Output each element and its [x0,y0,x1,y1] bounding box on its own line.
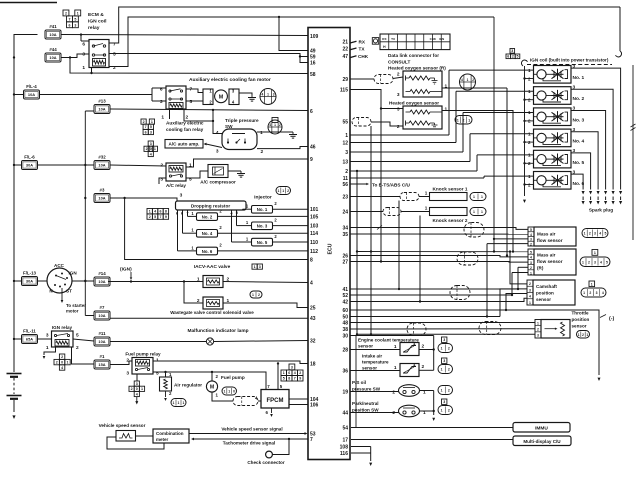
module multi-display C/U [513,436,571,446]
svg-text:Intake air: Intake air [362,354,382,359]
svg-text:#32: #32 [98,155,106,160]
svg-text:115: 115 [340,87,348,93]
wire VSS to combination meter [136,435,154,437]
coil supply rail [524,66,526,196]
svg-text:1: 1 [154,147,156,151]
svg-text:114: 114 [310,231,318,237]
connector coolant [442,337,447,342]
fuse #3 10A [94,194,110,203]
ground fan motor [239,93,252,95]
connector capsule rows 34 35 [464,223,484,238]
svg-text:1: 1 [582,260,584,264]
svg-text:1: 1 [481,210,483,214]
connector round fan [260,89,276,105]
wire relay pin5 to ECU pin 59 [109,54,308,57]
meter combination meter [153,429,189,443]
wire F/L-11 to IGN relay pin3 [38,338,52,340]
wire camshaft cell4 [506,294,527,311]
connector grid injector harness [147,209,152,214]
wire coil No.1 pin2 to rail [525,78,534,80]
svg-text:1: 1 [425,191,428,196]
sensor mass air flow sensor (R) [528,249,534,275]
svg-text:10A: 10A [98,339,105,344]
svg-text:4: 4 [310,280,313,286]
svg-text:F/L-4: F/L-4 [26,84,37,89]
svg-text:2: 2 [160,163,163,169]
svg-text:1: 1 [274,123,276,127]
svg-text:3: 3 [291,366,293,370]
connector pill knock 1 [470,193,486,201]
wire IACV to ECU pin 4 [223,282,308,283]
svg-text:flow sensor: flow sensor [537,259,563,264]
svg-text:16: 16 [310,60,316,66]
svg-text:#11: #11 [98,331,106,336]
wire bus to F/L-4 [14,94,24,96]
connector grid IACV [252,264,257,269]
svg-text:10A: 10A [98,163,105,168]
svg-text:ECM &: ECM & [88,12,104,18]
svg-text:105: 105 [310,214,319,220]
sensor engine coolant temperature [400,343,419,356]
relay fuel pump relay [132,358,153,375]
svg-text:2: 2 [582,333,584,337]
svg-text:55: 55 [342,119,348,125]
connector grid A/C 2 [148,141,153,146]
connector capsule rows 41 52 [450,286,470,300]
svg-text:5: 5 [190,99,193,105]
svg-text:sensor: sensor [358,344,373,349]
wire ECU ignition signal to coil No.6 [350,177,484,179]
svg-text:109: 109 [310,34,319,40]
svg-text:sensor: sensor [572,324,587,329]
label A/C auto amp [165,140,203,149]
svg-text:Spark plug: Spark plug [589,208,613,213]
svg-text:M: M [219,95,224,101]
svg-text:30A: 30A [26,279,33,284]
vertical left of sensor labels [355,336,357,428]
relay ECM/IGN coil relay [89,40,109,68]
svg-text:1: 1 [77,12,79,16]
svg-text:(-): (-) [609,316,614,322]
svg-text:54: 54 [342,425,348,431]
svg-text:#14: #14 [98,271,106,276]
svg-text:No. 3: No. 3 [573,117,585,123]
svg-text:0: 0 [150,147,152,151]
sensor heated oxygen sensor (R) [403,71,442,97]
module IMMU [513,423,570,433]
svg-text:2: 2 [65,12,67,16]
fuse #32 10A [94,161,110,170]
svg-text:IGN: IGN [69,271,78,276]
svg-text:1: 1 [591,282,593,286]
connector round O2 [460,74,476,90]
svg-text:1: 1 [267,92,269,96]
wire #32 to A/C relay pin2 [110,165,166,166]
wire ECU ignition signal to coil No.1 [350,134,449,136]
relay A/C relay [166,163,186,181]
svg-text:10A: 10A [98,107,105,112]
wire camshaft cell3 [500,289,527,317]
svg-text:27: 27 [342,259,348,265]
svg-text:5: 5 [76,333,79,339]
svg-text:29: 29 [342,77,348,83]
svg-text:5: 5 [113,52,116,58]
wire #13 to ECU pin 6 [110,109,308,111]
svg-text:3: 3 [160,177,163,183]
wire F/L-4 to cooling fan relay [40,94,153,96]
wire #1 to fuel pump relay pin2 [110,361,132,365]
svg-text:38: 38 [342,327,348,333]
svg-text:1: 1 [529,301,531,305]
sensor mass air flow sensor [528,227,534,246]
sensor knock sensor 2 [430,208,468,216]
connector curl left [521,60,527,66]
wire ECU pin 17 to multi-display [351,439,513,441]
switch P/S oil pressure [399,385,420,397]
svg-text:10A: 10A [98,313,105,318]
svg-text:#44: #44 [49,47,57,52]
label (-) [600,315,606,318]
wire ECU pin 34 [350,228,528,230]
svg-text:30A: 30A [26,163,33,168]
svg-text:2: 2 [345,169,348,175]
resistor dropping resistor [176,201,247,210]
wire relay pin7 up to top rail [109,7,620,43]
svg-text:3: 3 [160,99,163,105]
svg-text:52: 52 [342,293,348,299]
svg-text:1: 1 [441,409,443,413]
svg-text:34: 34 [342,225,348,231]
svg-text:1: 1 [584,232,586,236]
svg-text:Knock sensor 1: Knock sensor 1 [433,187,468,192]
wire P/S pin1 to ground rail [420,390,434,392]
svg-text:1: 1 [260,130,263,136]
svg-text:1: 1 [178,401,180,405]
svg-text:1: 1 [467,78,469,82]
wire fuel pump relay pin1 to ECU pin 18 [153,361,308,364]
svg-text:M: M [210,385,214,391]
fuse F/L-6 30A [22,161,38,170]
svg-text:Vehicle speed sensor: Vehicle speed sensor [99,423,146,428]
wire F/L-6 to #32 [38,164,95,166]
svg-text:4: 4 [599,232,601,236]
svg-text:3: 3 [594,260,596,264]
svg-text:Data link connector for: Data link connector for [388,53,439,58]
injector No.5 [252,238,273,246]
svg-text:8: 8 [310,257,313,263]
svg-text:No. 5: No. 5 [257,240,268,245]
svg-text:2: 2 [287,189,289,193]
svg-text:116: 116 [340,451,348,457]
svg-text:A/C relay: A/C relay [166,183,186,188]
svg-text:5: 5 [189,177,192,183]
svg-text:60: 60 [342,308,348,314]
svg-text:4: 4 [602,291,604,295]
wire ECU pin 42 [350,298,527,301]
svg-text:temperature: temperature [362,360,389,365]
svg-text:32: 32 [310,338,316,344]
connector P/S [438,386,453,395]
svg-text:3: 3 [136,382,138,386]
svg-text:Fuel pump relay: Fuel pump relay [125,352,161,357]
junction switched rail to ECU pin 49 [278,16,280,18]
wire injector No.4 to ECU pin 114 [218,232,309,234]
injector No.4 [197,230,218,238]
svg-text:Tachometer drive signal: Tachometer drive signal [223,441,276,446]
svg-text:3: 3 [74,23,76,27]
fuse #44 10A [45,53,61,62]
wire ECU pin 60 to battery negative [350,310,599,375]
connector capsule throttle 2 [479,322,501,335]
svg-text:112: 112 [310,249,318,255]
wire ECU pin 26 [350,256,528,257]
svg-text:ECU: ECU [328,243,334,254]
wire dropping resistor pins to injectors 2 4 6 [177,210,179,251]
svg-text:25: 25 [310,305,316,311]
svg-text:3: 3 [443,338,445,342]
junction on battery bus [13,280,15,282]
wire relay pin5 to fan motor pin2 [186,100,203,102]
svg-text:42: 42 [342,299,348,305]
svg-text:10A: 10A [49,55,56,60]
svg-text:1: 1 [537,321,539,325]
power rail down to sensors [493,17,495,252]
svg-text:5: 5 [530,251,532,255]
svg-text:1: 1 [583,291,585,295]
svg-text:2: 2 [422,343,425,349]
svg-text:Fuel pump: Fuel pump [221,375,245,380]
wire ECU pin 19 to P/S switch [350,391,399,393]
svg-text:TX: TX [359,46,366,51]
svg-text:3: 3 [180,193,183,199]
svg-text:Triple pressure: Triple pressure [225,118,259,123]
svg-text:110: 110 [310,240,318,246]
svg-text:2: 2 [512,54,514,58]
wire triple SW pin3 to A/C auto amp [206,144,222,148]
ground A/C compressor [228,170,241,172]
svg-text:2: 2 [76,345,79,351]
wire drop to triple pressure switch pin4 [213,110,222,134]
wire #7 to ECU pin 43 [110,317,308,319]
svg-text:4: 4 [269,123,271,127]
svg-text:2: 2 [146,147,148,151]
svg-text:Auxiliary electric cooling fan: Auxiliary electric cooling fan motor [189,77,271,83]
connector grid FPCM [289,364,295,370]
wire bus to F/L-13 [14,280,22,282]
svg-text:3: 3 [594,232,596,236]
svg-text:5: 5 [517,54,519,58]
wire ECU pin 41 [350,288,518,290]
fuse F/L-4 10A [24,90,40,99]
svg-text:1: 1 [228,390,230,394]
svg-text:Heated oxygen sensor: Heated oxygen sensor [389,101,439,106]
wire injector No.3 to ECU pin 103 [273,225,309,227]
wire ECU pin 47 CHK [350,56,357,58]
svg-text:No. 4: No. 4 [573,139,585,145]
svg-text:1: 1 [277,189,279,193]
svg-text:5: 5 [606,260,608,264]
connector grid ign coil [506,54,511,59]
compressor A/C compressor [208,165,228,178]
connector pill camshaft [589,281,595,287]
valve wastegate solenoid [203,297,223,309]
injector No.2 [197,213,218,221]
connector grid fuel pump relay [134,381,139,386]
junction on battery bus [13,164,15,166]
svg-text:sensor: sensor [362,366,377,371]
svg-text:CONSULT: CONSULT [388,60,410,65]
junction on battery bus [13,338,15,340]
svg-text:2: 2 [392,410,395,416]
svg-text:2: 2 [537,327,539,331]
svg-text:1: 1 [594,251,596,255]
wire VSS loop [107,437,164,449]
right edge vertical [632,65,634,240]
svg-text:3: 3 [345,150,348,156]
svg-text:4: 4 [150,152,152,156]
connector pill O2 [455,116,472,125]
svg-text:1: 1 [473,195,475,199]
svg-text:2: 2 [529,282,531,286]
svg-text:44: 44 [342,410,348,416]
svg-text:2: 2 [589,232,591,236]
vertical 115 branch down to row 27 [380,109,382,262]
svg-text:5: 5 [156,371,159,377]
svg-text:IGN relay: IGN relay [52,325,73,330]
wire ECU pin 36 to intake sensor [350,370,400,372]
wire ECU pin 35 [350,233,528,235]
relay auxiliary electric cooling fan relay [166,86,186,109]
svg-text:IGN coil (built into power tra: IGN coil (built into power transistor) [530,58,609,63]
svg-text:3: 3 [537,334,539,338]
svg-text:22: 22 [342,46,348,52]
wire ECU pin 115 to O2 sensor [350,90,403,109]
svg-text:No. 2: No. 2 [573,96,585,102]
connector P/N [442,399,447,404]
wire relay pin1 to ground line [91,68,93,74]
wire bus to F/L-11 [14,338,22,340]
svg-text:1: 1 [441,347,443,351]
svg-text:4: 4 [216,130,219,136]
battery BAT [7,373,22,375]
svg-text:#7: #7 [100,305,105,310]
wire ECU ignition signal to coil No.5 [350,170,477,172]
svg-text:5: 5 [283,377,285,381]
svg-text:P/S oil: P/S oil [352,380,366,385]
svg-text:3: 3 [273,92,275,96]
connector pill throttle [577,331,590,339]
wire ECU pin 52 [350,294,512,296]
wire ECU ignition signal to coil No.3 [350,151,463,153]
wire A/C relay pin1 to ECU pin 9 [186,159,308,167]
svg-text:6: 6 [507,54,509,58]
connector pill injector [276,187,291,195]
svg-text:position SW: position SW [352,408,379,413]
svg-text:0: 0 [136,387,138,391]
svg-text:#3: #3 [100,188,105,193]
svg-text:position: position [572,317,590,322]
connector grid ECM relay [63,10,69,16]
svg-text:#13: #13 [98,99,106,104]
svg-text:2: 2 [131,387,133,391]
wire fuel pump relay pin5 rail [153,372,266,390]
wire ECU pin 56 to E-TS/ABS [350,183,366,185]
wire capsule to O2 pin2 [371,122,403,126]
svg-text:106: 106 [310,402,319,408]
svg-text:To starter: To starter [66,303,86,308]
svg-text:46: 46 [310,144,316,150]
svg-text:7: 7 [310,437,313,443]
svg-text:7: 7 [113,41,116,47]
wire bus to F/L-6 [14,164,22,166]
ignition coil No.1 [534,66,572,84]
svg-text:7: 7 [68,18,70,22]
wire FPCM pin2 to ECU pin 106 [289,404,308,406]
svg-text:2: 2 [392,390,395,396]
wire ECU pin 54 to IMMU [351,427,513,429]
wire relay pin2 up to switched rail [109,17,494,67]
svg-text:10A: 10A [98,279,105,284]
svg-text:pressure SW: pressure SW [352,387,381,392]
svg-text:1: 1 [141,387,143,391]
wire #3 to dropping resistor and ECU pin 8 [110,197,173,199]
wire injector No.2 to ECU pin 105 [218,215,309,217]
svg-text:1: 1 [441,389,443,393]
wire tachometer drive signal from ECU pin 7 [194,438,308,440]
wire ECU ignition signal to coil No.4 [350,161,470,163]
svg-text:3: 3 [150,142,152,146]
svg-text:1: 1 [197,277,200,283]
svg-text:Multi-display C/U: Multi-display C/U [523,439,561,444]
svg-text:2: 2 [448,347,450,351]
svg-text:Wastegate valve control soleno: Wastegate valve control solenoid valve [170,310,254,315]
fuse #1 15A [94,360,110,369]
svg-text:F/L-11: F/L-11 [23,329,36,334]
svg-text:No. 4: No. 4 [202,231,213,236]
svg-text:2: 2 [589,291,591,295]
svg-text:4: 4 [136,392,138,396]
svg-text:1: 1 [252,293,254,297]
svg-text:(IGN): (IGN) [120,267,132,273]
svg-text:Mass air: Mass air [537,232,556,237]
svg-text:3: 3 [150,130,152,134]
svg-text:A/C auto amp.: A/C auto amp. [169,142,200,147]
wire #11 to malfunction indicator lamp [110,341,207,343]
svg-text:13: 13 [342,159,348,165]
svg-text:2: 2 [448,389,450,393]
svg-text:3: 3 [529,288,531,292]
switch triple pressure SW [222,129,257,150]
border fragment top-left [0,2,57,4]
svg-text:7: 7 [160,215,162,219]
sensor camshaft position sensor [527,280,533,305]
fuse F/L-13 30A [22,277,38,286]
svg-text:1: 1 [530,271,532,275]
svg-text:1: 1 [46,345,49,351]
svg-text:Check connector: Check connector [247,460,284,465]
svg-text:F/L-13: F/L-13 [23,271,36,276]
svg-text:2: 2 [448,368,450,372]
svg-text:3: 3 [397,107,400,113]
connector curl right [616,51,622,57]
svg-text:101: 101 [310,207,319,213]
svg-text:9: 9 [299,377,301,381]
svg-text:5: 5 [604,232,606,236]
svg-text:A/C compressor: A/C compressor [200,180,236,185]
svg-text:2: 2 [56,361,58,365]
svg-text:0: 0 [233,390,235,394]
svg-text:10A: 10A [49,32,56,37]
